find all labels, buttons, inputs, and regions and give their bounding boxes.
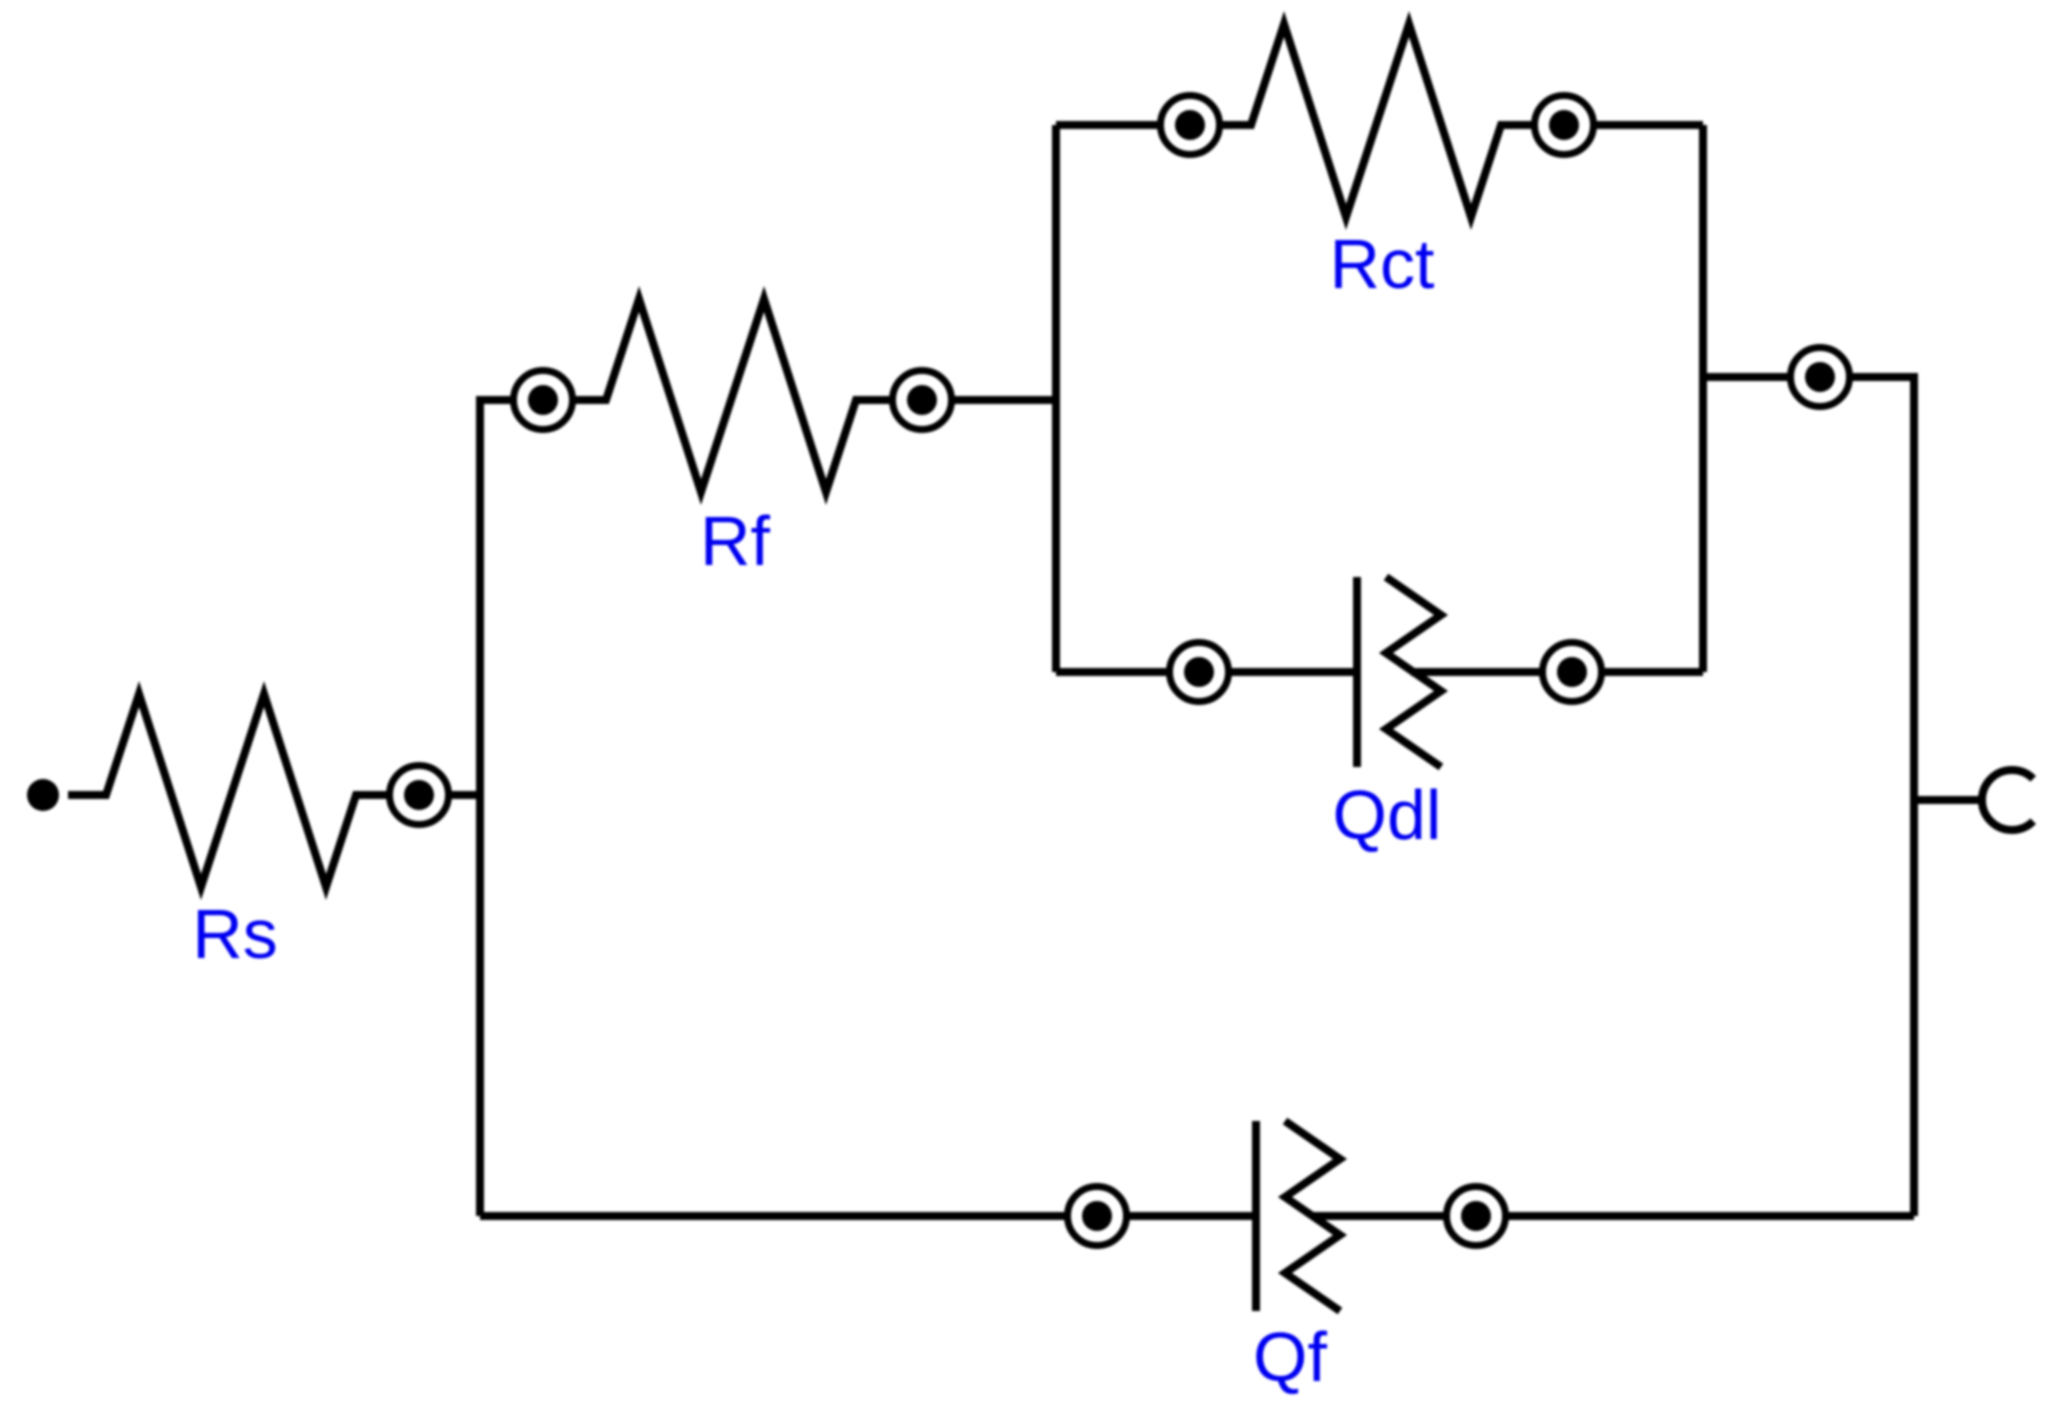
- svg-text:Rct: Rct: [1330, 225, 1435, 303]
- svg-text:Rs: Rs: [192, 895, 278, 973]
- svg-text:Qdl: Qdl: [1333, 776, 1442, 854]
- svg-text:Rf: Rf: [700, 502, 771, 580]
- svg-text:Qf: Qf: [1253, 1318, 1327, 1396]
